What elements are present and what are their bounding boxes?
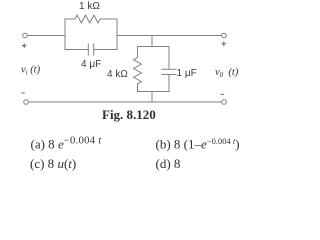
- wire capacitor branch top: [168, 47, 170, 70]
- polarity plus right: [221, 41, 226, 46]
- wire bottom branch left: [65, 49, 88, 51]
- wire bottom branch right: [94, 49, 117, 51]
- wire junction stub top: [151, 36, 153, 47]
- svg-text:(b) 8 (1–e−0.004 t): (b) 8 (1–e−0.004 t): [156, 136, 240, 152]
- svg-text:1 μF: 1 μF: [177, 68, 197, 79]
- wire top branch left: [65, 18, 75, 20]
- svg-text:(a) 8 e−0.004 t: (a) 8 e−0.004 t: [31, 136, 103, 152]
- terminal right top: [222, 33, 227, 38]
- wire bottom return: [29, 101, 222, 103]
- wire capacitor branch bottom: [168, 75, 170, 92]
- polarity minus right: [221, 93, 225, 95]
- svg-text:1 kΩ: 1 kΩ: [79, 1, 100, 12]
- terminal left top: [23, 33, 28, 38]
- terminal right bottom: [222, 100, 227, 105]
- capacitor C1 4uF plates: [88, 44, 93, 55]
- svg-text:vi (t): vi (t): [21, 65, 41, 77]
- capacitor C2 1uF plates: [162, 69, 176, 74]
- wire second loop bottom bar: [138, 91, 170, 93]
- polarity plus left: [22, 43, 27, 48]
- wire second loop top bar: [138, 46, 170, 48]
- svg-text:4 μF: 4 μF: [81, 59, 101, 70]
- polarity minus left: [21, 92, 25, 94]
- wire resistor branch bottom: [137, 84, 139, 92]
- resistor R2 4 kohm: [134, 58, 142, 84]
- resistor R1 1 kohm: [75, 15, 100, 23]
- wire input top: [28, 35, 66, 37]
- svg-text:4 kΩ: 4 kΩ: [107, 69, 128, 80]
- node left loop left vertical: [64, 19, 66, 50]
- wire resistor branch top: [137, 47, 139, 58]
- node left loop right vertical: [116, 19, 118, 50]
- wire output top: [117, 35, 222, 37]
- terminal left bottom: [24, 100, 29, 105]
- wire junction stub bottom: [151, 92, 153, 103]
- wire top branch right: [100, 18, 117, 20]
- svg-text:(c) 8 u(t): (c) 8 u(t): [30, 156, 76, 171]
- svg-text:(d) 8: (d) 8: [156, 156, 181, 171]
- svg-text:v0 (t): v0 (t): [215, 67, 239, 79]
- svg-text:Fig. 8.120: Fig. 8.120: [102, 107, 156, 122]
